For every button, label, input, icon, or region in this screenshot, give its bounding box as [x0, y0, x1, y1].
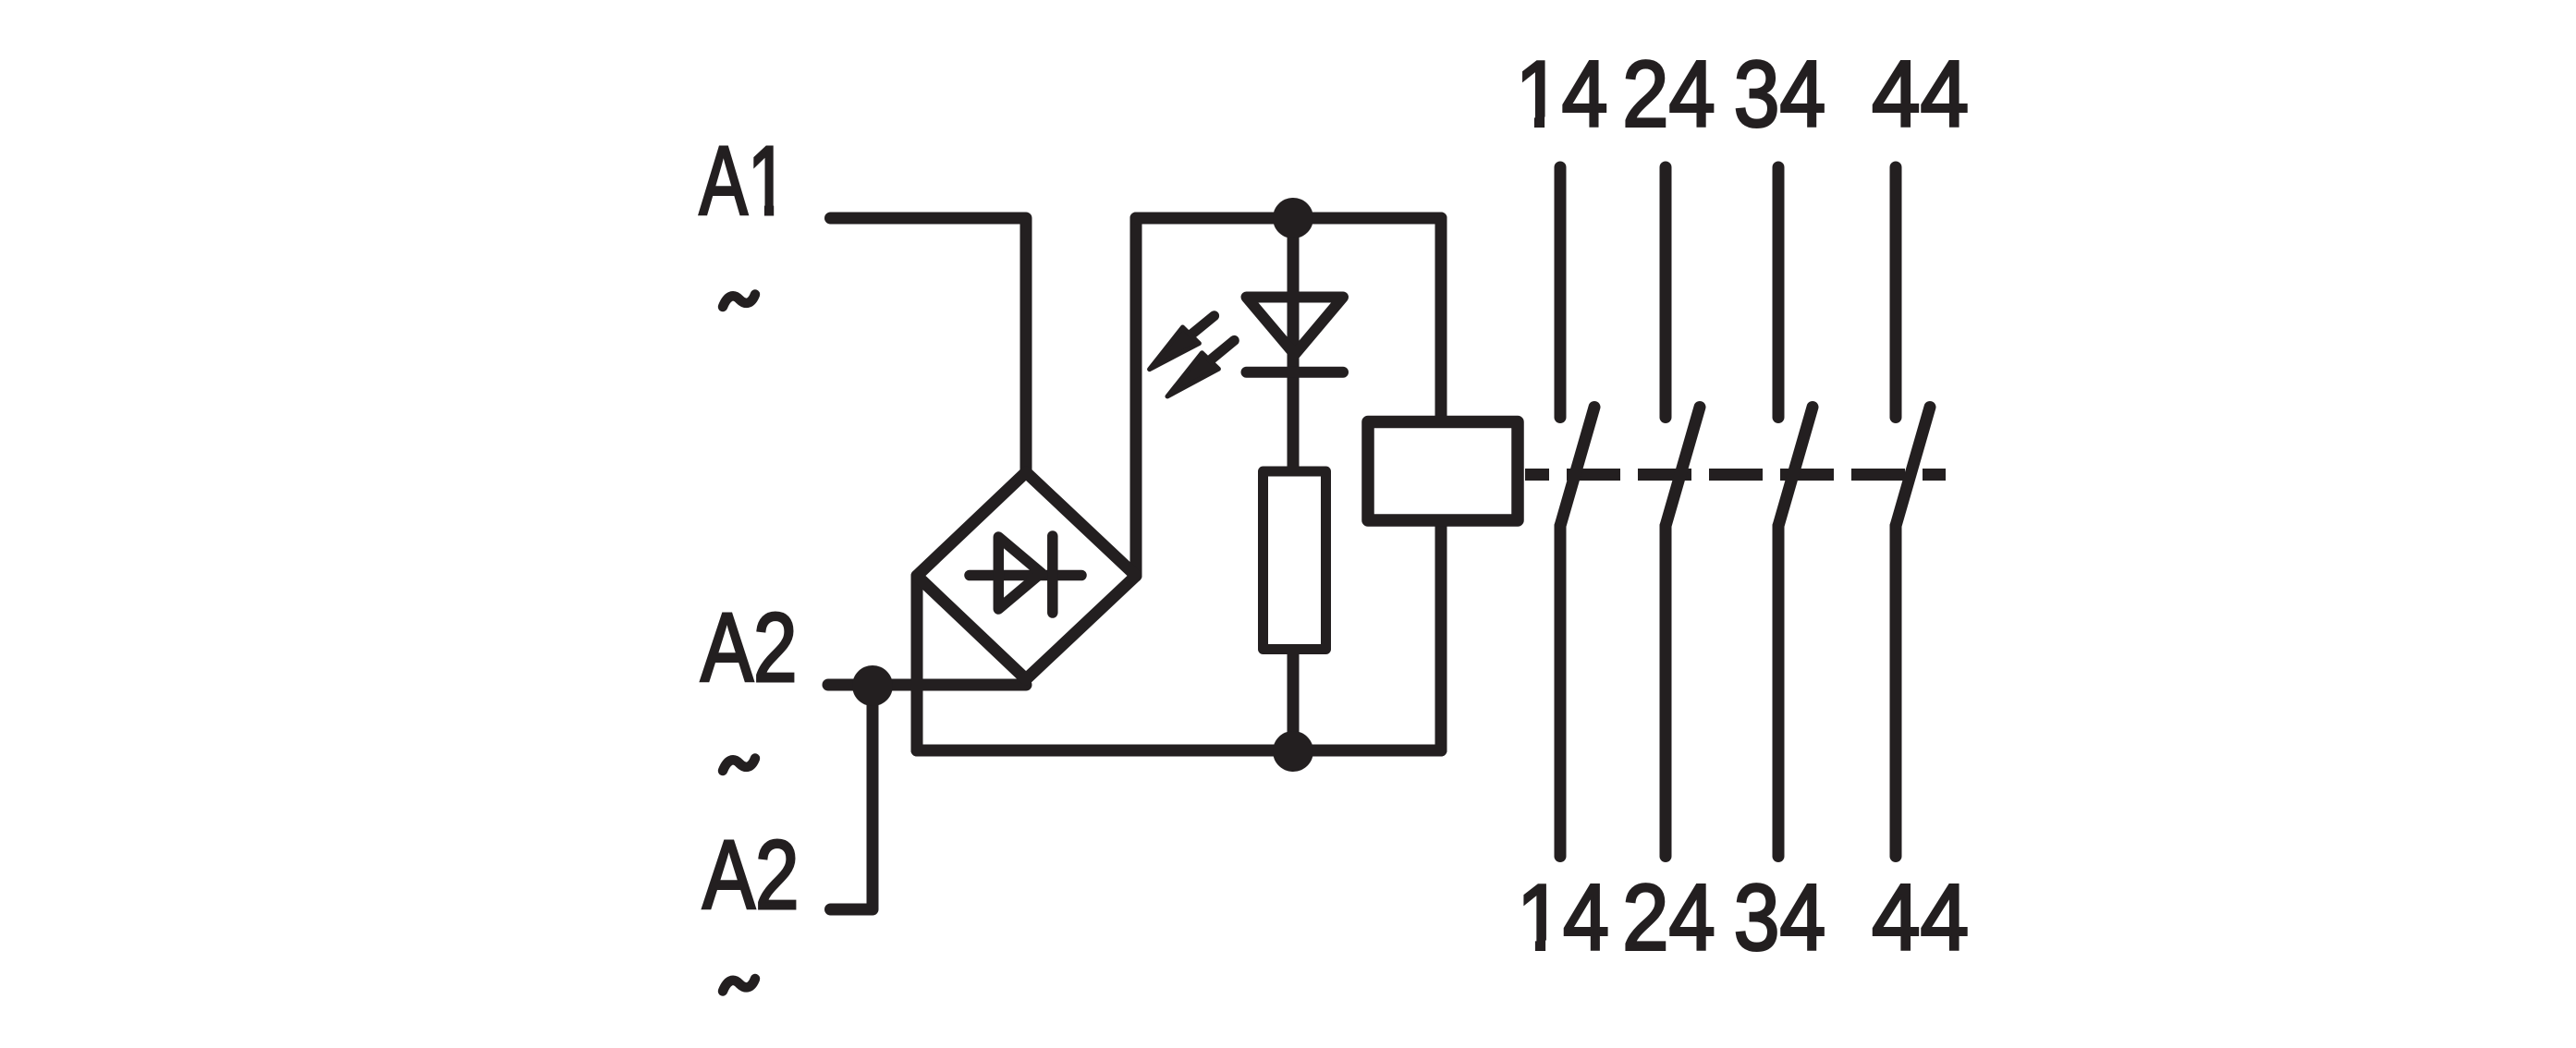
wire top bus — [1136, 213, 1441, 225]
AC tilde below A1 — [723, 295, 755, 308]
wire bridge right vertex up to top bus — [1130, 218, 1142, 576]
svg-text:44: 44 — [1872, 43, 1969, 147]
svg-text:24: 24 — [1622, 867, 1715, 970]
svg-text:14: 14 — [1516, 43, 1608, 147]
wire bottom bus — [917, 745, 1441, 757]
wire A2 terminal to bridge bottom vertex — [828, 679, 1026, 691]
contact 34 (NO) — [1778, 167, 1813, 857]
svg-text:14: 14 — [1517, 867, 1609, 970]
bridge rectifier diamond — [917, 472, 1136, 679]
svg-text:34: 34 — [1734, 867, 1825, 970]
wire second A2 terminal to A2 node — [831, 686, 873, 909]
glyph correction masks (remove foot serif of digit 1) — [750, 117, 1561, 954]
node top junction — [1273, 198, 1313, 238]
svg-text:34: 34 — [1734, 43, 1825, 147]
contact 14 (NO) — [1560, 167, 1594, 857]
svg-text:A2: A2 — [702, 821, 800, 930]
contact 24 (NO) — [1666, 167, 1700, 857]
contact 44 (NO) — [1896, 167, 1930, 857]
svg-text:A2: A2 — [701, 593, 798, 702]
wire LED and resistor branch — [1288, 218, 1300, 751]
AC tilde below second A2 — [723, 979, 755, 992]
node A2 junction — [852, 665, 893, 706]
bridge diode symbol — [970, 536, 1081, 613]
wire A1 terminal to bridge top vertex — [831, 218, 1027, 472]
svg-text:A1: A1 — [700, 127, 788, 236]
LED light emission arrows — [1150, 316, 1235, 396]
resistor R1 — [1264, 471, 1326, 650]
AC tilde below A2 — [723, 759, 755, 772]
svg-text:24: 24 — [1622, 43, 1715, 147]
node bottom bus junction — [1273, 731, 1313, 772]
wire bottom bus up to bridge left vertex — [911, 576, 923, 750]
wire right branch through relay coil — [1435, 218, 1447, 750]
relay coil K1 — [1368, 422, 1518, 521]
svg-text:44: 44 — [1872, 867, 1969, 970]
mechanical linkage dashed line — [1525, 469, 1946, 481]
LED D1 — [1247, 298, 1344, 372]
